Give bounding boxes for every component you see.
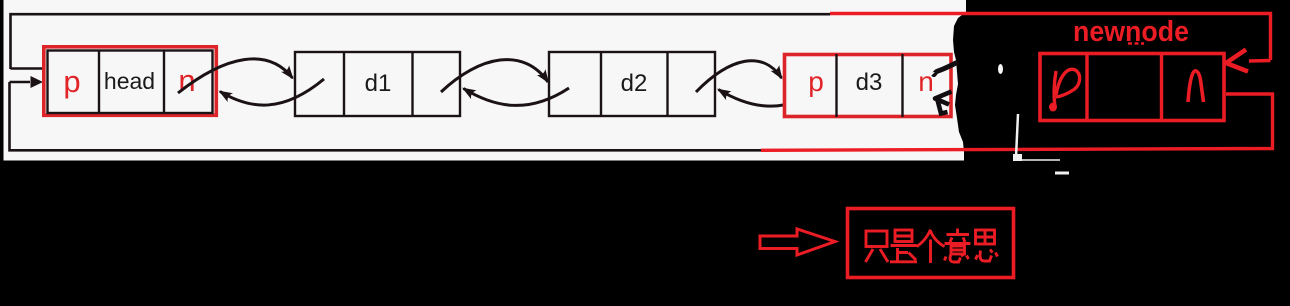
head node cell dividers bbox=[99, 51, 164, 114]
wire: bottom wrap-around (black part) bbox=[10, 82, 762, 150]
svg-text:d3: d3 bbox=[856, 69, 883, 96]
curve: d2.n to d3 (upper) bbox=[696, 61, 782, 92]
char 意 bbox=[945, 229, 971, 244]
red squiggle underline under second n bbox=[1128, 42, 1144, 44]
bottom annotation: chinese text 只是个意思 drawn as strokes bbox=[866, 229, 998, 264]
arrow into head node bbox=[10, 81, 31, 84]
d1 node cell dividers bbox=[344, 52, 413, 116]
curve: d1.n to d2 (upper) bbox=[441, 60, 548, 92]
d2 node cell dividers bbox=[601, 52, 668, 116]
svg-text:n: n bbox=[918, 66, 934, 97]
red wire: stub toward newnode box with hand arrowhead bbox=[1249, 59, 1271, 63]
white handwriting remnant: dash below bbox=[1055, 172, 1069, 175]
wire: upper elbow into head node bbox=[11, 67, 44, 70]
curve: d2.p back to d1 (lower) bbox=[464, 88, 570, 105]
d1 node box bbox=[295, 52, 460, 116]
svg-text:p: p bbox=[63, 64, 80, 99]
wire: top wrap-around (black part) bbox=[11, 14, 831, 69]
red wire: top, continues black top wire to newnode (over black area) bbox=[830, 14, 1271, 61]
hand-drawn red arrowhead at newnode top-right bbox=[1226, 50, 1248, 72]
white speck inside scribble blob bbox=[998, 64, 1003, 74]
hand-drawn black tick bbox=[938, 100, 948, 114]
svg-text:head: head bbox=[104, 68, 155, 94]
bottom annotation: red box bbox=[848, 209, 1014, 278]
d3 node red box bbox=[785, 55, 952, 117]
handwritten red n in newnode right cell bbox=[1188, 71, 1204, 102]
svg-text:d1: d1 bbox=[365, 70, 392, 97]
handwritten red dot under p bbox=[1049, 103, 1057, 112]
char 是 bbox=[895, 230, 912, 242]
curve: d1.p back to head (lower) bbox=[220, 79, 324, 105]
red wire: from newnode right side down and left to list (bottom) bbox=[761, 94, 1273, 150]
svg-text:d2: d2 bbox=[621, 70, 648, 97]
char 个 bbox=[917, 230, 945, 264]
white handwriting remnant: thin baseline bbox=[1014, 159, 1060, 161]
svg-text:p: p bbox=[808, 66, 824, 97]
curve: d3.p back to d2 (lower) bbox=[719, 87, 821, 106]
handwritten red p in newnode left cell bbox=[1054, 71, 1056, 107]
curve: head.n to d1 (upper) bbox=[178, 59, 293, 93]
newnode cell dividers (red) bbox=[1087, 53, 1162, 119]
white canvas panel with irregular right edge bbox=[4, 0, 967, 161]
head node red box bbox=[44, 47, 217, 116]
bottom annotation: red block arrow outline bbox=[760, 229, 835, 255]
hand-drawn black arrowhead scrawl under it bbox=[935, 92, 952, 105]
char 思 bbox=[976, 230, 995, 244]
d2 node box bbox=[549, 52, 715, 116]
hand-drawn black stroke into n cell of d3 bbox=[933, 62, 958, 75]
char 只 bbox=[866, 231, 887, 247]
newnode red box bbox=[1040, 54, 1224, 121]
d3 node cell dividers bbox=[837, 54, 903, 117]
head node inner black box bbox=[48, 51, 213, 114]
white handwriting remnant: foot blob bbox=[1013, 154, 1022, 161]
white handwriting remnant: vertical stroke bbox=[1016, 114, 1018, 157]
